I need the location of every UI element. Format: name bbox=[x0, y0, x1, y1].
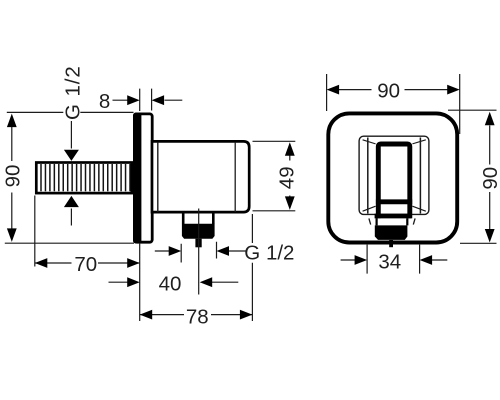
threaded pipe outline bbox=[36, 163, 132, 194]
outlet nut (side view) bbox=[182, 224, 215, 239]
dim 90 top bbox=[327, 74, 460, 134]
svg-text:90: 90 bbox=[377, 79, 400, 102]
threaded pipe hatching bbox=[41, 164, 130, 191]
dim 8 bbox=[99, 89, 182, 114]
outlet tab (front view) bbox=[389, 240, 393, 247]
svg-text:49: 49 bbox=[275, 166, 298, 189]
outlet nub (front view) bbox=[375, 225, 408, 240]
dim 49 bbox=[253, 141, 299, 211]
svg-text:34: 34 bbox=[378, 250, 401, 273]
holder cross band bbox=[376, 199, 412, 204]
holder bottom cap bbox=[375, 214, 412, 219]
svg-text:G 1/2: G 1/2 bbox=[62, 65, 85, 120]
svg-text:G 1/2: G 1/2 bbox=[244, 241, 294, 264]
holder corner bevels bbox=[363, 140, 426, 211]
wall flange outline bbox=[134, 114, 152, 242]
outlet tab (side view) bbox=[195, 239, 201, 248]
dim G 1/2 outlet bbox=[155, 241, 295, 264]
body seam line bbox=[234, 143, 236, 212]
dim 78 bbox=[140, 214, 253, 328]
svg-text:90: 90 bbox=[1, 165, 24, 188]
dim 34 bbox=[341, 245, 448, 274]
wall flange front face bar bbox=[133, 113, 141, 244]
outlet neck (front view) bbox=[377, 218, 408, 225]
svg-text:8: 8 bbox=[99, 90, 110, 113]
holder face plate bbox=[359, 136, 429, 214]
outlet centerline bbox=[198, 209, 200, 295]
holder side wall lines bbox=[368, 138, 421, 214]
holder skirt bbox=[369, 218, 415, 224]
dim G 1/2 top-left bbox=[62, 65, 85, 225]
body outline bbox=[152, 141, 249, 212]
svg-text:70: 70 bbox=[74, 253, 97, 276]
svg-text:78: 78 bbox=[186, 305, 209, 328]
dim 40 bbox=[109, 244, 239, 321]
svg-text:90: 90 bbox=[479, 167, 500, 190]
dim 70 bbox=[35, 196, 140, 277]
dim 90 right bbox=[448, 110, 500, 243]
outlet neck (side view) bbox=[183, 213, 213, 224]
holder cup bracket bbox=[378, 144, 410, 218]
dim 90 left extension lines bbox=[5, 112, 134, 243]
holder outer squircle (front view) bbox=[328, 113, 457, 242]
dim 90 left bbox=[1, 114, 24, 242]
svg-text:40: 40 bbox=[159, 273, 182, 296]
body step line bbox=[157, 143, 159, 212]
